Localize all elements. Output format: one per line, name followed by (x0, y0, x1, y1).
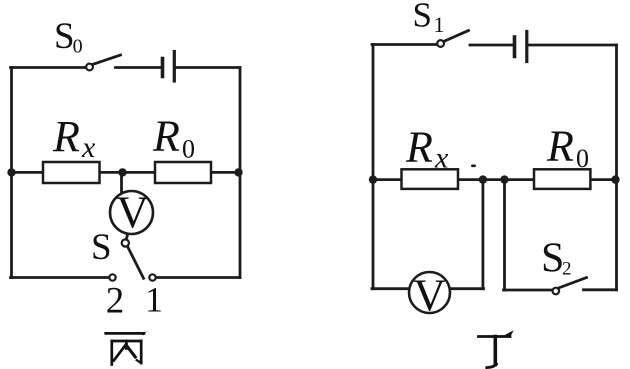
svg-text:R: R (546, 122, 574, 171)
svg-text:x: x (81, 131, 96, 164)
svg-text:0: 0 (576, 144, 589, 173)
svg-text:x: x (434, 142, 449, 175)
svg-text:0: 0 (73, 36, 83, 58)
svg-text:S: S (413, 0, 432, 35)
svg-text:R: R (52, 112, 80, 161)
svg-text:S: S (541, 236, 564, 282)
svg-text:S: S (54, 16, 75, 57)
svg-text:S: S (91, 227, 112, 268)
svg-text:V: V (413, 271, 446, 321)
svg-text:1: 1 (145, 280, 163, 320)
svg-text:V: V (116, 188, 149, 238)
svg-text:1: 1 (434, 12, 445, 37)
svg-text:2: 2 (562, 259, 572, 280)
svg-text:0: 0 (182, 135, 195, 164)
svg-text:2: 2 (106, 281, 125, 322)
svg-text:R: R (152, 112, 180, 161)
svg-text:R: R (405, 123, 433, 172)
